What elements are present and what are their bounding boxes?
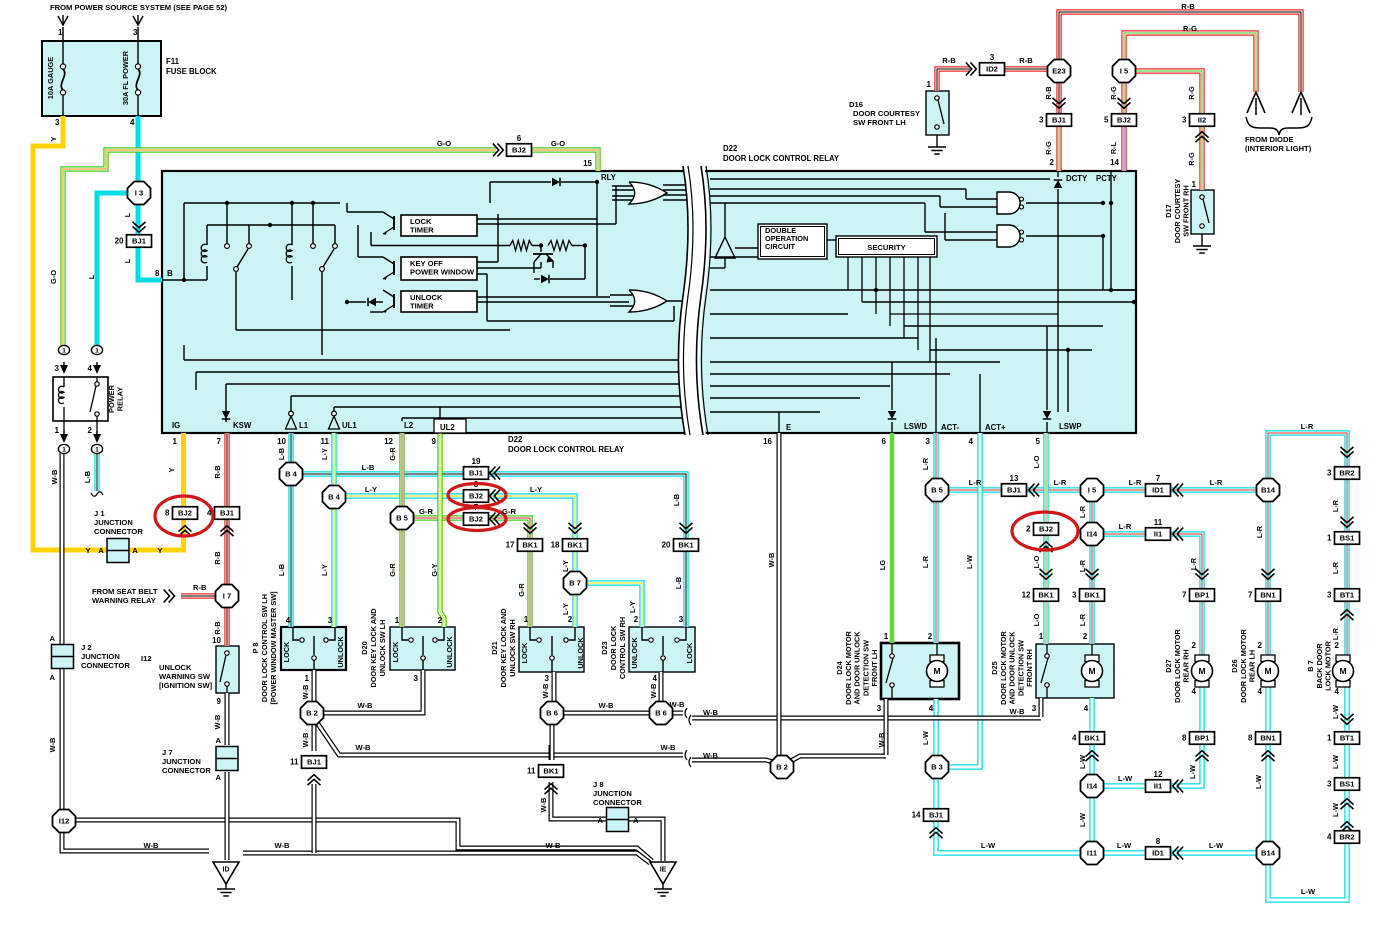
svg-text:LSWP: LSWP xyxy=(1059,422,1082,431)
svg-text:DOOR LOCK MOTOR: DOOR LOCK MOTOR xyxy=(999,630,1008,704)
svg-text:L-W: L-W xyxy=(1301,887,1316,896)
svg-text:L-R: L-R xyxy=(1078,505,1087,518)
svg-text:BP1: BP1 xyxy=(1195,734,1211,743)
svg-text:REAR LH: REAR LH xyxy=(1248,650,1257,682)
svg-text:D25: D25 xyxy=(990,661,999,674)
svg-text:UNLOCK: UNLOCK xyxy=(576,637,585,669)
svg-text:BT1: BT1 xyxy=(1340,591,1355,600)
svg-text:Y: Y xyxy=(167,467,176,472)
svg-text:CONNECTOR: CONNECTOR xyxy=(162,766,211,775)
svg-text:W-B: W-B xyxy=(877,733,886,748)
svg-text:4: 4 xyxy=(929,704,934,713)
svg-text:5: 5 xyxy=(1104,116,1109,125)
svg-text:7: 7 xyxy=(217,437,222,446)
svg-text:[POWER WINDOW MASTER SW]: [POWER WINDOW MASTER SW] xyxy=(269,591,278,705)
svg-text:W-B: W-B xyxy=(357,701,373,710)
svg-text:11: 11 xyxy=(1154,518,1163,527)
svg-text:L-R: L-R xyxy=(1078,559,1087,572)
svg-text:1: 1 xyxy=(395,616,400,625)
svg-text:L-W: L-W xyxy=(1209,841,1224,850)
svg-text:DOOR LOCK CONTROL SW LH: DOOR LOCK CONTROL SW LH xyxy=(260,594,269,702)
svg-text:2: 2 xyxy=(1258,641,1263,650)
svg-text:W-B: W-B xyxy=(48,738,57,753)
svg-text:L-R: L-R xyxy=(1078,613,1087,626)
svg-text:CONNECTOR: CONNECTOR xyxy=(94,527,143,536)
svg-text:B14: B14 xyxy=(1261,849,1276,858)
svg-text:7: 7 xyxy=(1156,474,1161,483)
svg-text:BR2: BR2 xyxy=(1339,469,1354,478)
svg-text:DOOR LOCK CONTROL RELAY: DOOR LOCK CONTROL RELAY xyxy=(723,154,840,163)
svg-text:SW FRONT LH: SW FRONT LH xyxy=(853,118,906,127)
svg-text:4: 4 xyxy=(1084,704,1089,713)
svg-text:BJ2: BJ2 xyxy=(1039,525,1053,534)
svg-text:6: 6 xyxy=(882,437,887,446)
svg-text:8: 8 xyxy=(1182,734,1187,743)
svg-text:L-R: L-R xyxy=(1331,561,1340,574)
svg-text:A: A xyxy=(216,736,222,745)
svg-text:I 5: I 5 xyxy=(1120,67,1129,76)
svg-text:L-B: L-B xyxy=(674,577,683,589)
svg-text:BJ2: BJ2 xyxy=(1117,116,1131,125)
svg-text:P 8: P 8 xyxy=(251,643,260,654)
svg-text:L-Y: L-Y xyxy=(320,564,329,576)
svg-text:19: 19 xyxy=(472,457,481,466)
svg-text:DOOR KEY LOCK AND: DOOR KEY LOCK AND xyxy=(499,608,508,687)
svg-text:B 4: B 4 xyxy=(328,493,341,502)
svg-text:5: 5 xyxy=(1036,437,1041,446)
svg-text:BK1: BK1 xyxy=(543,767,559,776)
svg-text:1: 1 xyxy=(62,447,66,454)
svg-text:L-B: L-B xyxy=(83,471,92,483)
svg-text:2: 2 xyxy=(88,426,93,435)
svg-text:UNLOCK: UNLOCK xyxy=(445,636,454,668)
svg-text:DOOR LOCK: DOOR LOCK xyxy=(609,625,618,670)
svg-text:A: A xyxy=(50,634,56,643)
svg-text:DOOR LOCK CONTROL RELAY: DOOR LOCK CONTROL RELAY xyxy=(508,445,625,454)
svg-text:UL1: UL1 xyxy=(342,421,357,430)
svg-text:BJ1: BJ1 xyxy=(469,469,484,478)
svg-text:1: 1 xyxy=(884,632,889,641)
svg-text:DCTY: DCTY xyxy=(1066,174,1088,183)
svg-text:4: 4 xyxy=(130,118,135,127)
svg-text:M: M xyxy=(1198,666,1205,676)
svg-text:II2: II2 xyxy=(1198,116,1206,125)
svg-text:L-O: L-O xyxy=(1032,613,1041,626)
svg-text:3: 3 xyxy=(926,437,931,446)
svg-text:3: 3 xyxy=(55,118,60,127)
svg-text:W-B: W-B xyxy=(541,684,550,699)
svg-text:2: 2 xyxy=(568,615,573,624)
svg-text:M: M xyxy=(1088,666,1095,676)
svg-text:BJ2: BJ2 xyxy=(178,509,192,518)
svg-text:1: 1 xyxy=(95,447,99,454)
svg-text:15: 15 xyxy=(583,159,592,168)
svg-text:4: 4 xyxy=(1258,687,1263,696)
svg-text:L: L xyxy=(123,212,132,217)
svg-text:W-B: W-B xyxy=(301,685,310,700)
svg-text:CONNECTOR: CONNECTOR xyxy=(593,798,642,807)
svg-text:12: 12 xyxy=(384,437,393,446)
svg-text:II1: II1 xyxy=(1154,782,1163,791)
svg-text:L-W: L-W xyxy=(965,555,974,569)
svg-text:3: 3 xyxy=(1327,780,1332,789)
svg-text:IG: IG xyxy=(172,421,180,430)
svg-text:FRONT LH: FRONT LH xyxy=(870,650,879,687)
svg-text:1: 1 xyxy=(1327,534,1332,543)
svg-text:G-R: G-R xyxy=(388,563,397,577)
svg-text:1: 1 xyxy=(95,348,99,355)
svg-text:W-B: W-B xyxy=(598,701,614,710)
svg-text:II1: II1 xyxy=(1154,530,1163,539)
svg-text:ID1: ID1 xyxy=(1152,849,1165,858)
svg-text:R-B: R-B xyxy=(1019,56,1033,65)
svg-text:J 8: J 8 xyxy=(593,780,604,789)
svg-text:R-B: R-B xyxy=(942,56,956,65)
svg-text:L-R: L-R xyxy=(1210,478,1223,487)
svg-text:30A FL POWER: 30A FL POWER xyxy=(121,50,130,105)
svg-text:JUNCTION: JUNCTION xyxy=(94,518,133,527)
svg-text:2: 2 xyxy=(1050,158,1055,167)
svg-text:9: 9 xyxy=(432,437,437,446)
svg-text:J 1: J 1 xyxy=(94,509,105,518)
svg-text:I 7: I 7 xyxy=(223,592,231,601)
svg-text:3: 3 xyxy=(133,28,138,37)
svg-text:1: 1 xyxy=(58,28,63,37)
svg-text:LOCK: LOCK xyxy=(391,641,400,662)
svg-text:R-L: R-L xyxy=(1109,141,1118,154)
svg-text:L-W: L-W xyxy=(1331,755,1340,769)
svg-text:7: 7 xyxy=(1182,591,1187,600)
svg-text:4: 4 xyxy=(286,616,291,625)
svg-text:4: 4 xyxy=(969,437,974,446)
svg-text:18: 18 xyxy=(551,541,560,550)
svg-text:BJ1: BJ1 xyxy=(1007,486,1022,495)
svg-text:REAR RH: REAR RH xyxy=(1182,649,1191,682)
svg-text:DETECTION SW: DETECTION SW xyxy=(1016,640,1025,696)
svg-text:D24: D24 xyxy=(835,660,844,674)
svg-text:L-W: L-W xyxy=(1188,765,1197,779)
svg-text:KSW: KSW xyxy=(233,421,252,430)
svg-text:UNLOCK: UNLOCK xyxy=(336,636,345,668)
svg-text:A: A xyxy=(132,546,138,555)
svg-text:FROM SEAT BELT: FROM SEAT BELT xyxy=(92,587,158,596)
svg-text:R-G: R-G xyxy=(1109,86,1118,100)
svg-text:L-W: L-W xyxy=(1118,774,1133,783)
svg-text:4: 4 xyxy=(1072,734,1077,743)
svg-text:L-R: L-R xyxy=(1189,557,1198,570)
svg-text:L1: L1 xyxy=(299,421,309,430)
svg-text:R-B: R-B xyxy=(213,551,222,564)
svg-text:UNLOCK: UNLOCK xyxy=(630,637,639,669)
svg-text:SECURITY: SECURITY xyxy=(867,243,905,252)
svg-text:1: 1 xyxy=(1192,180,1197,189)
svg-text:R-B: R-B xyxy=(213,621,222,634)
svg-text:UL2: UL2 xyxy=(440,423,455,432)
svg-text:3: 3 xyxy=(877,704,882,713)
svg-text:TIMER: TIMER xyxy=(410,226,434,235)
svg-text:W-B: W-B xyxy=(213,715,222,730)
svg-text:G-O: G-O xyxy=(437,139,451,148)
svg-text:4: 4 xyxy=(88,364,93,373)
svg-text:12: 12 xyxy=(1022,591,1031,600)
svg-text:L: L xyxy=(123,258,132,263)
svg-text:RLY: RLY xyxy=(601,173,617,182)
svg-text:I14: I14 xyxy=(1087,782,1098,791)
svg-text:10A GAUGE: 10A GAUGE xyxy=(46,57,55,100)
svg-text:12: 12 xyxy=(1154,770,1163,779)
svg-text:DETECTION SW: DETECTION SW xyxy=(861,640,870,696)
svg-text:A: A xyxy=(216,773,222,782)
svg-text:11: 11 xyxy=(290,758,299,767)
svg-text:L-W: L-W xyxy=(921,731,930,745)
svg-text:3: 3 xyxy=(414,674,419,683)
svg-text:BJ2: BJ2 xyxy=(469,515,483,524)
svg-text:L-R: L-R xyxy=(1129,478,1142,487)
svg-text:DOOR COURTESY: DOOR COURTESY xyxy=(1173,179,1182,244)
svg-text:BJ1: BJ1 xyxy=(220,509,235,518)
svg-text:L-B: L-B xyxy=(362,463,375,472)
svg-text:BN1: BN1 xyxy=(1260,591,1276,600)
svg-text:D16: D16 xyxy=(849,100,863,109)
svg-text:WARNING SW: WARNING SW xyxy=(159,672,211,681)
svg-text:W-B: W-B xyxy=(274,841,290,850)
svg-text:BK1: BK1 xyxy=(1038,591,1054,600)
svg-text:LOCK: LOCK xyxy=(520,642,529,663)
svg-text:FROM POWER SOURCE SYSTEM (SEE: FROM POWER SOURCE SYSTEM (SEE PAGE 52) xyxy=(50,3,228,12)
svg-text:JUNCTION: JUNCTION xyxy=(593,789,632,798)
svg-text:L-Y: L-Y xyxy=(561,603,570,615)
svg-text:D21: D21 xyxy=(490,641,499,654)
svg-text:L2: L2 xyxy=(404,421,414,430)
svg-text:2: 2 xyxy=(1026,525,1031,534)
svg-text:L-R: L-R xyxy=(969,478,982,487)
svg-text:BN1: BN1 xyxy=(1260,734,1276,743)
svg-text:R-G: R-G xyxy=(1187,152,1196,166)
svg-text:R-G: R-G xyxy=(1187,86,1196,100)
svg-text:BACK DOOR: BACK DOOR xyxy=(1315,643,1324,689)
svg-text:L-Y: L-Y xyxy=(561,560,570,572)
svg-text:UNLOCK SW LH: UNLOCK SW LH xyxy=(378,620,387,677)
svg-text:1: 1 xyxy=(173,437,178,446)
svg-text:8: 8 xyxy=(165,509,170,518)
svg-text:I12: I12 xyxy=(141,654,152,663)
svg-text:LSWD: LSWD xyxy=(904,422,927,431)
svg-text:3: 3 xyxy=(1182,116,1187,125)
svg-text:B 7: B 7 xyxy=(569,579,581,588)
svg-text:RELAY: RELAY xyxy=(116,387,125,411)
svg-text:L-R: L-R xyxy=(1119,522,1132,531)
svg-text:3: 3 xyxy=(1327,591,1332,600)
svg-text:FROM DIODE: FROM DIODE xyxy=(1245,135,1294,144)
svg-text:DOOR LOCK MOTOR: DOOR LOCK MOTOR xyxy=(844,630,853,704)
svg-text:17: 17 xyxy=(506,541,515,550)
svg-text:3: 3 xyxy=(990,53,995,62)
svg-text:R-B: R-B xyxy=(213,465,222,478)
svg-text:L-R: L-R xyxy=(1331,499,1340,512)
svg-text:WARNING RELAY: WARNING RELAY xyxy=(92,596,156,605)
svg-text:J 7: J 7 xyxy=(162,748,173,757)
svg-text:A: A xyxy=(598,816,604,825)
svg-text:UNLOCK: UNLOCK xyxy=(159,663,192,672)
svg-text:CIRCUIT: CIRCUIT xyxy=(765,242,795,251)
svg-text:L-Y: L-Y xyxy=(628,601,637,613)
svg-text:2: 2 xyxy=(1192,641,1197,650)
svg-text:W-B: W-B xyxy=(649,684,658,699)
svg-text:IE: IE xyxy=(660,867,667,874)
svg-text:2: 2 xyxy=(634,615,639,624)
svg-text:3: 3 xyxy=(1039,116,1044,125)
svg-text:L-B: L-B xyxy=(277,448,286,460)
svg-text:J 2: J 2 xyxy=(81,643,92,652)
svg-text:W-B: W-B xyxy=(660,743,676,752)
svg-text:2: 2 xyxy=(438,616,443,625)
svg-text:W-B: W-B xyxy=(539,798,548,813)
svg-text:ID1: ID1 xyxy=(1152,486,1165,495)
svg-text:B 5: B 5 xyxy=(931,486,944,495)
svg-text:D17: D17 xyxy=(1164,204,1173,217)
svg-text:R-B: R-B xyxy=(1181,2,1195,11)
svg-text:14: 14 xyxy=(912,811,921,820)
svg-text:L-W: L-W xyxy=(981,841,996,850)
svg-text:B 6: B 6 xyxy=(546,709,558,718)
svg-text:BP1: BP1 xyxy=(1195,591,1211,600)
svg-text:1: 1 xyxy=(62,348,66,355)
svg-text:13: 13 xyxy=(1010,474,1019,483)
svg-text:16: 16 xyxy=(763,437,772,446)
svg-text:B14: B14 xyxy=(1261,486,1276,495)
svg-text:BS1: BS1 xyxy=(1340,534,1356,543)
svg-text:10: 10 xyxy=(277,437,286,446)
svg-text:W-B: W-B xyxy=(143,841,159,850)
svg-text:4: 4 xyxy=(1327,833,1332,842)
svg-text:2: 2 xyxy=(1335,641,1340,650)
svg-text:L-W: L-W xyxy=(1078,813,1087,827)
svg-text:BJ1: BJ1 xyxy=(1052,116,1067,125)
svg-text:ACT-: ACT- xyxy=(941,423,960,432)
svg-text:R-B: R-B xyxy=(1044,86,1053,99)
svg-text:ID: ID xyxy=(223,867,230,874)
svg-text:L-R: L-R xyxy=(1255,525,1264,538)
svg-text:8: 8 xyxy=(155,269,160,278)
svg-text:3: 3 xyxy=(55,364,60,373)
svg-text:L-W: L-W xyxy=(1254,775,1263,789)
svg-text:L-O: L-O xyxy=(1032,555,1041,568)
svg-text:BK1: BK1 xyxy=(567,541,583,550)
svg-text:A: A xyxy=(633,816,639,825)
svg-text:L-R: L-R xyxy=(1331,627,1340,640)
svg-text:UNLOCK SW RH: UNLOCK SW RH xyxy=(508,619,517,677)
svg-text:3: 3 xyxy=(1032,704,1037,713)
svg-text:I12: I12 xyxy=(59,817,70,826)
svg-text:CONNECTOR: CONNECTOR xyxy=(81,661,130,670)
svg-text:BT1: BT1 xyxy=(1340,734,1355,743)
svg-text:3: 3 xyxy=(679,615,684,624)
svg-text:B 4: B 4 xyxy=(285,470,298,479)
svg-text:DOOR COURTESY: DOOR COURTESY xyxy=(853,109,920,118)
svg-text:B 7: B 7 xyxy=(1306,660,1315,671)
svg-text:JUNCTION: JUNCTION xyxy=(162,757,201,766)
svg-text:1: 1 xyxy=(1327,734,1332,743)
svg-text:D20: D20 xyxy=(360,641,369,654)
svg-text:W-B: W-B xyxy=(669,700,685,709)
svg-text:F11: F11 xyxy=(166,57,180,66)
svg-text:4: 4 xyxy=(653,674,658,683)
svg-text:D22: D22 xyxy=(723,144,738,153)
svg-text:G-O: G-O xyxy=(551,139,565,148)
svg-text:I 5: I 5 xyxy=(1088,486,1097,495)
svg-text:L-Y: L-Y xyxy=(320,448,329,460)
svg-text:W-B: W-B xyxy=(301,733,310,748)
svg-text:AND DOOR UNLOCK: AND DOOR UNLOCK xyxy=(1008,631,1017,705)
svg-text:3: 3 xyxy=(545,674,550,683)
svg-text:M: M xyxy=(1339,666,1346,676)
svg-text:L-O: L-O xyxy=(1032,455,1041,468)
svg-text:W-B: W-B xyxy=(703,751,719,760)
svg-text:DOOR KEY LOCK AND: DOOR KEY LOCK AND xyxy=(369,608,378,687)
svg-text:POWER WINDOW: POWER WINDOW xyxy=(410,268,475,277)
svg-text:DOOR LOCK MOTOR: DOOR LOCK MOTOR xyxy=(1173,628,1182,702)
svg-text:L-R: L-R xyxy=(1054,478,1067,487)
svg-text:BJ2: BJ2 xyxy=(512,146,526,155)
svg-text:BJ1: BJ1 xyxy=(307,758,322,767)
svg-text:R-G: R-G xyxy=(1044,141,1053,155)
svg-text:L-W: L-W xyxy=(1078,755,1087,769)
svg-text:Y: Y xyxy=(49,136,58,141)
svg-text:8: 8 xyxy=(1248,734,1253,743)
svg-text:6: 6 xyxy=(517,134,522,143)
svg-text:14: 14 xyxy=(1110,158,1119,167)
svg-text:W-B: W-B xyxy=(703,708,719,717)
svg-text:E: E xyxy=(786,423,791,432)
svg-text:TIMER: TIMER xyxy=(410,302,434,311)
svg-text:4: 4 xyxy=(1335,687,1340,696)
svg-text:8: 8 xyxy=(1156,837,1161,846)
svg-text:9: 9 xyxy=(217,697,222,706)
svg-text:M: M xyxy=(1264,666,1271,676)
svg-text:G-O: G-O xyxy=(49,270,58,284)
svg-text:LOCK: LOCK xyxy=(282,641,291,662)
svg-text:ACT+: ACT+ xyxy=(985,423,1006,432)
svg-text:AND DOOR UNLOCK: AND DOOR UNLOCK xyxy=(853,631,862,705)
svg-text:BJ2: BJ2 xyxy=(469,492,483,501)
svg-text:3: 3 xyxy=(328,616,333,625)
svg-text:I 3: I 3 xyxy=(135,189,143,198)
svg-text:L-W: L-W xyxy=(1117,841,1132,850)
svg-text:3: 3 xyxy=(1327,469,1332,478)
svg-text:FRONT RH: FRONT RH xyxy=(1025,649,1034,687)
svg-text:10: 10 xyxy=(212,636,221,645)
svg-text:L-W: L-W xyxy=(1331,803,1340,817)
svg-text:L-Y: L-Y xyxy=(365,485,377,494)
svg-text:R-B: R-B xyxy=(193,583,207,592)
svg-text:B 2: B 2 xyxy=(306,709,318,718)
svg-text:Y: Y xyxy=(157,546,162,555)
svg-text:I14: I14 xyxy=(1087,530,1098,539)
svg-text:G-R: G-R xyxy=(502,507,516,516)
svg-text:LG: LG xyxy=(878,560,887,571)
svg-text:G-Y: G-Y xyxy=(430,563,439,576)
svg-text:E23: E23 xyxy=(1052,67,1066,76)
svg-text:11: 11 xyxy=(321,437,330,446)
svg-text:L-R: L-R xyxy=(1301,422,1314,431)
svg-text:W-B: W-B xyxy=(545,841,561,850)
svg-text:11: 11 xyxy=(527,767,536,776)
svg-text:B: B xyxy=(167,269,173,278)
svg-text:4: 4 xyxy=(1192,687,1197,696)
svg-text:JUNCTION: JUNCTION xyxy=(81,652,120,661)
svg-text:[IGNITION SW]: [IGNITION SW] xyxy=(159,681,213,690)
svg-text:G-R: G-R xyxy=(388,447,397,461)
